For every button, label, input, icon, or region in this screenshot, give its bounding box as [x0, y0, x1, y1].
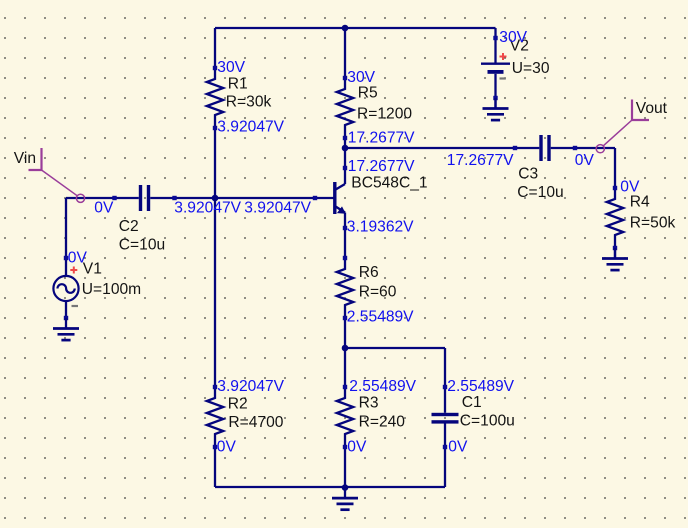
svg-text:3.92047V: 3.92047V — [244, 200, 311, 217]
resistor R5 — [337, 76, 413, 140]
net label Vin — [14, 148, 85, 202]
svg-text:17.2677V: 17.2677V — [447, 152, 514, 169]
svg-text:30V: 30V — [347, 69, 375, 86]
svg-text:R1: R1 — [228, 76, 248, 93]
svg-text:C1: C1 — [462, 394, 482, 411]
junction emitter node — [342, 345, 349, 352]
wire C3 to corner — [575, 147, 615, 149]
wire R4 to ground — [614, 248, 616, 258]
wire V2 top lead — [494, 28, 496, 38]
svg-text:0V: 0V — [448, 439, 468, 456]
wire V2 to ground — [494, 98, 496, 109]
wire R2 bottom — [214, 447, 216, 487]
junction collector node — [342, 145, 349, 152]
capacitor C3 — [513, 135, 577, 201]
resistor R4 — [607, 186, 676, 250]
svg-text:0V: 0V — [68, 250, 88, 267]
svg-text:R=30k: R=30k — [226, 94, 272, 111]
wire emitter to R6 — [344, 228, 346, 258]
svg-text:R=1200: R=1200 — [357, 105, 412, 122]
svg-text:C=10u: C=10u — [517, 184, 563, 201]
svg-text:R6: R6 — [359, 264, 379, 281]
junction bottom rail ground — [342, 484, 349, 491]
wire collector rail — [345, 147, 515, 149]
svg-text:R=240: R=240 — [359, 414, 406, 431]
ground under V1 — [53, 318, 79, 340]
svg-text:R=4700: R=4700 — [228, 414, 283, 431]
svg-text:17.2677V: 17.2677V — [348, 158, 415, 175]
svg-text:R=50k: R=50k — [630, 214, 676, 231]
svg-text:30V: 30V — [217, 59, 245, 76]
wire R3 bottom — [344, 447, 346, 487]
wire R1 bottom to base — [214, 128, 216, 387]
wire bottom rail — [215, 486, 445, 488]
wire C1 drop — [444, 348, 446, 387]
svg-text:R2: R2 — [228, 395, 248, 412]
ground bottom rail — [332, 488, 358, 510]
svg-text:3.19362V: 3.19362V — [347, 219, 414, 236]
svg-text:30V: 30V — [499, 29, 527, 46]
svg-text:Vin: Vin — [14, 150, 36, 167]
capacitor C2 — [112, 185, 176, 254]
wire Vin drop — [65, 198, 67, 258]
svg-text:Vout: Vout — [636, 100, 668, 117]
wire node to C1 — [345, 347, 445, 349]
svg-text:2.55489V: 2.55489V — [347, 309, 414, 326]
ground under R4 — [602, 248, 628, 270]
svg-text:BC548C_1: BC548C_1 — [351, 175, 427, 192]
wire R5 top — [344, 28, 346, 78]
wire base mid — [174, 197, 334, 199]
svg-text:C3: C3 — [518, 166, 538, 183]
svg-text:3.92047V: 3.92047V — [174, 200, 241, 217]
wire top rail — [215, 27, 496, 29]
resistor R6 — [337, 256, 397, 320]
svg-text:0V: 0V — [575, 152, 595, 169]
svg-text:U=30: U=30 — [512, 60, 550, 77]
wire C1 bottom — [444, 447, 446, 487]
svg-text:R4: R4 — [630, 194, 650, 211]
wire R6 to node — [344, 318, 346, 348]
svg-text:3.92047V: 3.92047V — [217, 378, 284, 395]
wire node to R3 — [344, 348, 346, 387]
svg-text:0V: 0V — [347, 439, 367, 456]
junction base node — [212, 195, 219, 202]
svg-text:2.55489V: 2.55489V — [349, 378, 416, 395]
svg-text:U=100m: U=100m — [82, 281, 141, 298]
ground under V2 — [483, 98, 509, 120]
svg-text:2.55489V: 2.55489V — [447, 378, 514, 395]
svg-text:R=60: R=60 — [359, 284, 397, 301]
svg-text:C=100u: C=100u — [460, 413, 515, 430]
svg-text:C=10u: C=10u — [119, 237, 165, 254]
junction top rail / R5 — [342, 25, 349, 32]
voltage source V2 — [481, 36, 550, 100]
wire R5 to collector — [344, 138, 346, 168]
wire R4 drop — [614, 148, 616, 188]
resistor R2 — [207, 385, 284, 449]
wire R1 top — [214, 28, 216, 68]
capacitor C1 — [432, 385, 515, 449]
svg-text:17.2677V: 17.2677V — [348, 130, 415, 147]
svg-text:R3: R3 — [359, 395, 379, 412]
svg-text:R5: R5 — [358, 85, 378, 102]
svg-text:0V: 0V — [217, 439, 237, 456]
transistor BC548C_1 — [313, 166, 428, 230]
resistor R1 — [207, 66, 272, 130]
svg-text:0V: 0V — [94, 200, 114, 217]
wire base left — [66, 197, 115, 199]
svg-text:3.92047V: 3.92047V — [217, 119, 284, 136]
voltage source V1 — [53, 256, 141, 320]
svg-text:C2: C2 — [119, 218, 139, 235]
net label Vout — [596, 100, 667, 153]
svg-text:0V: 0V — [620, 179, 640, 196]
resistor R3 — [337, 385, 406, 449]
